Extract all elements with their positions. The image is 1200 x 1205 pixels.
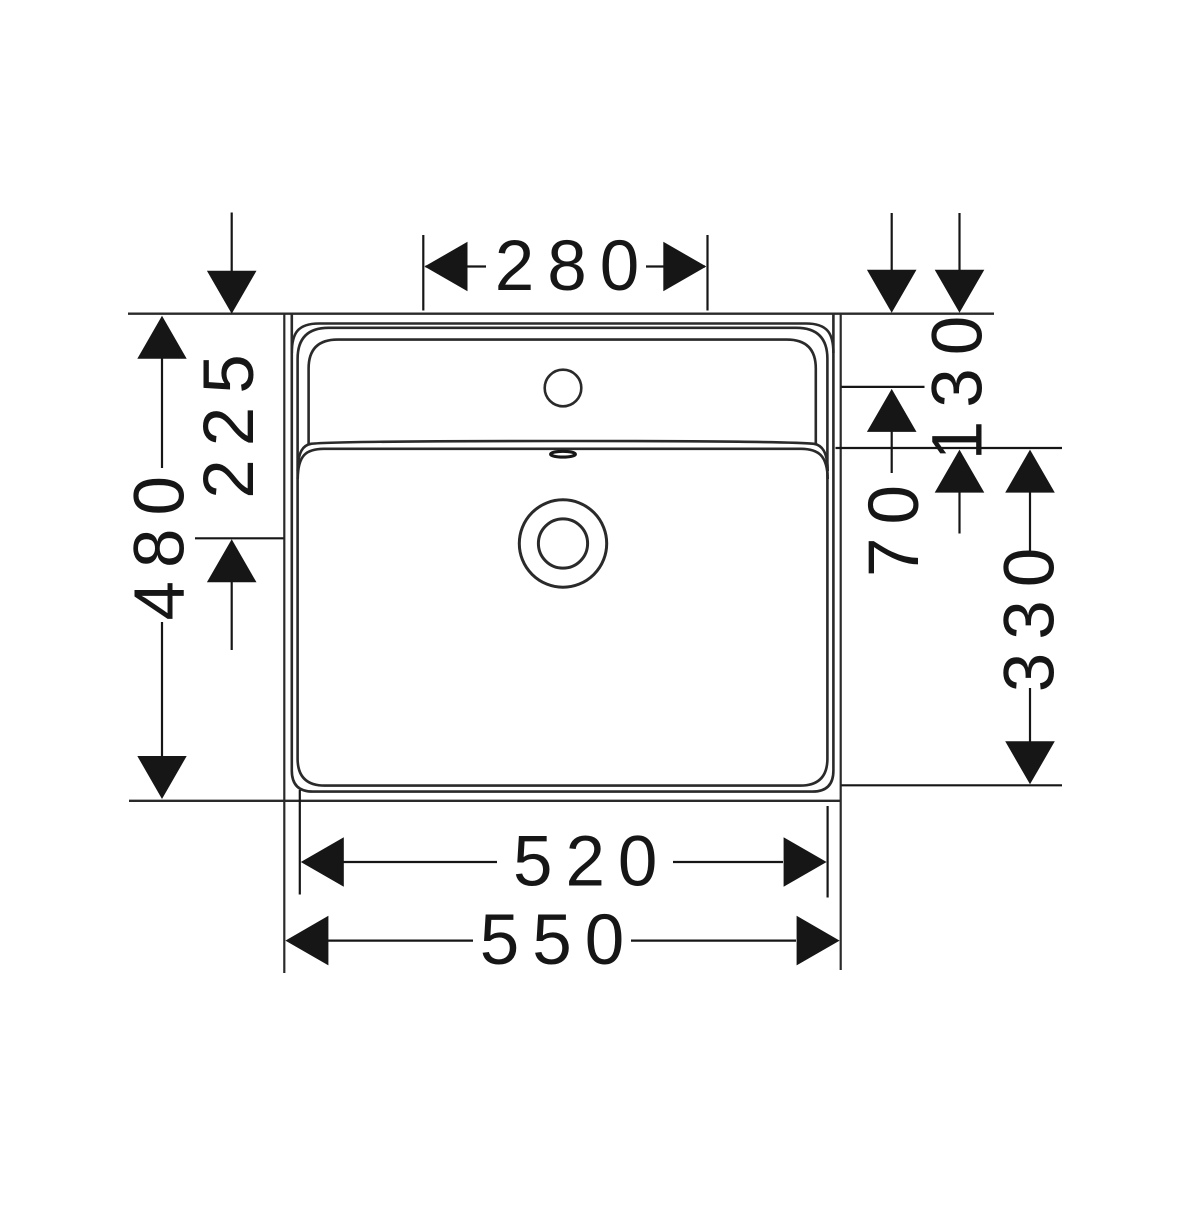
dim 520 extension right <box>826 806 828 898</box>
svg-text:280: 280 <box>495 227 652 306</box>
dim 330 arrow up <box>1005 450 1055 493</box>
tap deck inner outline <box>309 340 816 444</box>
basin front edge line 2 <box>298 449 828 479</box>
svg-text:225: 225 <box>190 341 269 498</box>
svg-text:480: 480 <box>121 463 200 620</box>
dim 550 line left <box>328 939 474 941</box>
dim 130 tail top <box>958 213 960 273</box>
dim 280 line right <box>646 265 705 267</box>
basin rim outline A sides and bottom <box>292 314 834 792</box>
dim 225 arrow up <box>207 539 257 582</box>
dim 280 arrow right <box>663 242 706 291</box>
dim 330 tail bottom <box>1029 688 1031 743</box>
svg-text:520: 520 <box>513 823 670 902</box>
dim 520 arrow right <box>784 837 827 887</box>
dim 130 arrow up <box>935 450 985 493</box>
drain outer circle <box>519 500 606 587</box>
svg-text:550: 550 <box>480 901 637 980</box>
dim 550 arrow left <box>285 916 328 966</box>
dim 550 line right <box>631 939 796 941</box>
drain inner circle <box>538 519 587 568</box>
basin front edge line 1 <box>298 441 828 471</box>
dim 225 tail top <box>231 213 233 276</box>
wire bottom reference line <box>129 800 841 802</box>
wire right outer edge / extension <box>840 314 842 970</box>
dim 480 line upper <box>161 357 163 468</box>
dim 280 line left <box>426 265 487 267</box>
dim 330 arrow down <box>1005 741 1055 784</box>
dim 480 arrow up <box>137 316 186 359</box>
dim 520 arrow left <box>301 837 344 887</box>
basin rim top edge line <box>292 324 834 354</box>
dim 550 arrow right <box>797 916 840 966</box>
dim 520 line right <box>673 861 783 863</box>
faucet hole <box>545 370 582 407</box>
dim 280 extension right <box>706 235 708 311</box>
dim 225 tail bottom <box>231 581 233 650</box>
dim 520 line left <box>343 861 497 863</box>
basin rim outline B <box>298 328 828 786</box>
dim 280 extension left <box>422 235 424 311</box>
dim 70 reference line <box>842 386 925 388</box>
dim 70 tail bottom <box>891 431 893 473</box>
dim 130 tail bottom <box>958 492 960 534</box>
svg-text:70: 70 <box>855 472 934 577</box>
dim 330 tail top <box>1029 492 1031 552</box>
dim 330 reference line <box>842 784 1063 786</box>
dim 225 reference line <box>195 537 284 539</box>
dim 130 reference line <box>836 447 1063 449</box>
dim 70 arrow up <box>867 389 917 432</box>
wire top reference line <box>128 313 994 315</box>
dim 480 arrow down <box>137 756 186 799</box>
overflow slot <box>551 451 576 457</box>
svg-text:330: 330 <box>991 535 1070 692</box>
dim 520 extension left <box>299 790 301 895</box>
dim 480 line lower <box>161 622 163 758</box>
svg-text:130: 130 <box>919 303 998 460</box>
wire left outer edge / extension <box>283 314 285 973</box>
dim 280 arrow left <box>425 242 468 291</box>
dim 225 arrow down <box>207 271 257 314</box>
dim 130 arrow down <box>935 270 985 313</box>
dim 70 arrow down <box>867 270 917 313</box>
dim 70 tail top <box>891 213 893 273</box>
